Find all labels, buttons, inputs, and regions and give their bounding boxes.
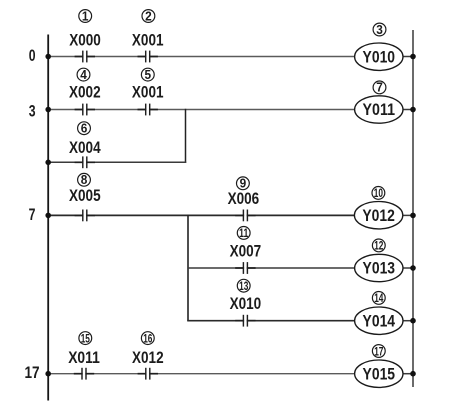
coil Y012 [354, 202, 402, 229]
node junction left rail X004 branch [45, 160, 51, 166]
svg-text:13: 13 [239, 279, 248, 293]
svg-text:X011: X011 [68, 349, 100, 367]
wire coil lead Y010 [403, 56, 414, 58]
svg-text:X007: X007 [230, 243, 262, 261]
contact X002 [75, 103, 95, 116]
circled number 6 [78, 122, 91, 136]
contact X005 [75, 209, 95, 222]
svg-text:X006: X006 [228, 190, 260, 208]
wire rung 3 [48, 109, 355, 111]
svg-text:Y015: Y015 [363, 364, 396, 383]
svg-text:7: 7 [376, 81, 383, 95]
svg-text:X005: X005 [69, 187, 101, 205]
circled number 17 [372, 344, 385, 358]
svg-text:5: 5 [145, 68, 152, 82]
wire branch rung 7 vertical [187, 215, 189, 321]
contact X012 [138, 367, 158, 380]
svg-text:Y010: Y010 [363, 47, 396, 66]
contact X001 rung 0 [138, 50, 158, 63]
svg-text:17: 17 [24, 364, 39, 382]
svg-text:3: 3 [376, 23, 383, 37]
wire rung 7 [48, 214, 355, 216]
circled number 16 [141, 331, 154, 345]
wire coil lead Y014 [403, 320, 414, 322]
node junction right rail Y014 [410, 318, 416, 324]
svg-text:X001: X001 [132, 32, 164, 50]
contact X000 [75, 50, 95, 63]
svg-text:6: 6 [81, 122, 88, 136]
contact X001 rung 3 [138, 103, 158, 116]
wire branch rung 3 vertical [185, 109, 187, 163]
circled number 1 [79, 9, 92, 23]
circled number 13 [237, 279, 250, 293]
wire rung 17 [48, 373, 355, 375]
right power rail [412, 30, 414, 387]
node junction right rail Y010 [410, 54, 416, 60]
circled number 4 [77, 68, 90, 82]
node junction left rail rung 3 [45, 107, 51, 113]
svg-text:X004: X004 [69, 139, 101, 157]
svg-text:15: 15 [81, 331, 90, 345]
wire X004 branch rung [48, 161, 186, 163]
svg-text:X000: X000 [69, 32, 101, 50]
contact X010 [235, 314, 255, 327]
svg-text:4: 4 [80, 68, 87, 82]
svg-text:14: 14 [374, 291, 383, 305]
circled number 5 [141, 68, 154, 82]
svg-text:Y011: Y011 [363, 100, 396, 119]
coil Y014 [355, 307, 403, 334]
left power rail [47, 35, 49, 401]
wire rung 0 [48, 56, 355, 58]
svg-text:11: 11 [239, 226, 248, 240]
coil Y013 [355, 254, 403, 281]
circled number 12 [372, 239, 385, 253]
svg-text:16: 16 [143, 331, 152, 345]
circled number 7 [373, 81, 386, 95]
svg-text:0: 0 [29, 47, 36, 65]
circled number 15 [79, 331, 92, 345]
circled number 3 [373, 23, 386, 37]
svg-text:2: 2 [145, 9, 152, 23]
svg-text:Y013: Y013 [363, 259, 396, 278]
svg-text:8: 8 [81, 173, 88, 187]
svg-text:7: 7 [29, 206, 36, 224]
svg-text:17: 17 [374, 344, 383, 358]
svg-text:10: 10 [374, 186, 383, 200]
svg-text:Y012: Y012 [362, 206, 395, 225]
node junction right rail Y015 [410, 371, 416, 377]
wire coil lead Y015 [403, 373, 414, 375]
svg-text:X012: X012 [132, 349, 164, 367]
circled number 14 [372, 291, 385, 305]
wire X010 sub-rung [187, 320, 355, 322]
coil Y015 [355, 360, 403, 387]
svg-text:X002: X002 [69, 83, 101, 101]
coil Y011 [355, 96, 403, 123]
contact X004 [75, 156, 95, 169]
node junction right rail Y012 [410, 213, 416, 219]
svg-text:9: 9 [240, 177, 247, 191]
wire coil lead Y013 [403, 267, 414, 269]
svg-text:Y014: Y014 [363, 311, 396, 330]
contact X007 [235, 262, 255, 275]
node junction left rail rung 7 [45, 213, 51, 219]
circled number 9 [237, 177, 250, 191]
svg-text:X010: X010 [230, 295, 262, 313]
node junction right rail Y011 [410, 107, 416, 113]
node junction left rail rung 0 [45, 54, 51, 60]
svg-text:3: 3 [29, 103, 36, 121]
node junction left rail rung 17 [45, 371, 51, 377]
node junction right rail Y013 [410, 265, 416, 271]
wire coil lead Y012 [403, 214, 414, 216]
circled number 2 [142, 9, 155, 23]
svg-text:1: 1 [82, 9, 89, 23]
coil Y010 [355, 43, 403, 70]
wire X007 sub-rung [188, 267, 355, 269]
circled number 8 [78, 173, 91, 187]
circled number 10 [372, 186, 385, 200]
contact X011 [74, 367, 94, 380]
circled number 11 [237, 226, 250, 240]
wire coil lead Y011 [403, 109, 414, 111]
contact X006 [235, 209, 255, 222]
svg-text:12: 12 [374, 239, 383, 253]
svg-text:X001: X001 [132, 83, 164, 101]
